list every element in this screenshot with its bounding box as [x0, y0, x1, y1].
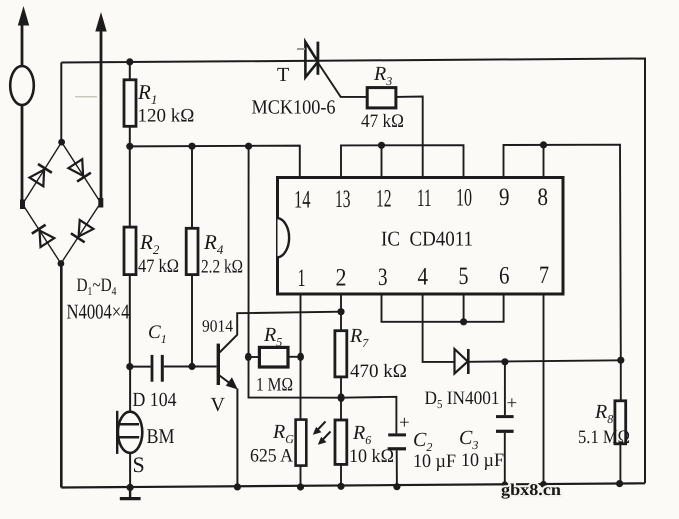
svg-text:7: 7	[539, 262, 549, 289]
svg-text:+: +	[399, 413, 410, 434]
svg-text:D 104: D 104	[133, 389, 177, 411]
svg-text:2.2 kΩ: 2.2 kΩ	[201, 257, 243, 278]
svg-text:D5 IN4001: D5 IN4001	[425, 388, 500, 411]
svg-text:10 kΩ: 10 kΩ	[349, 446, 394, 467]
svg-text:BM: BM	[147, 424, 175, 448]
svg-text:11: 11	[417, 185, 432, 212]
svg-text:1: 1	[298, 265, 306, 292]
svg-text:gbx8.cn: gbx8.cn	[501, 480, 561, 499]
svg-text:V: V	[211, 394, 226, 416]
svg-text:12: 12	[376, 186, 392, 213]
svg-text:N4004×4: N4004×4	[67, 300, 130, 324]
svg-text:IC CD4011: IC CD4011	[381, 227, 473, 251]
svg-text:T: T	[277, 64, 289, 86]
svg-text:120 kΩ: 120 kΩ	[138, 106, 195, 127]
svg-text:D1~D4: D1~D4	[77, 275, 117, 298]
svg-text:5: 5	[459, 263, 469, 290]
svg-text:10 µF: 10 µF	[413, 451, 456, 472]
svg-text:13: 13	[335, 186, 351, 213]
svg-text:10: 10	[456, 185, 472, 212]
svg-text:6: 6	[499, 263, 510, 290]
svg-text:3: 3	[378, 264, 388, 291]
svg-text:+: +	[507, 393, 518, 414]
svg-text:625 A: 625 A	[250, 446, 293, 467]
svg-text:10 µF: 10 µF	[461, 450, 504, 471]
svg-text:8: 8	[538, 184, 549, 211]
svg-text:47 kΩ: 47 kΩ	[361, 111, 404, 132]
svg-text:470 kΩ: 470 kΩ	[350, 361, 407, 382]
svg-text:4: 4	[418, 264, 429, 291]
svg-text:9014: 9014	[202, 317, 233, 336]
svg-text:S: S	[133, 452, 145, 477]
svg-text:1 MΩ: 1 MΩ	[256, 375, 293, 396]
svg-text:2: 2	[336, 265, 347, 292]
svg-text:5.1 MΩ: 5.1 MΩ	[578, 427, 630, 448]
svg-text:MCK100-6: MCK100-6	[252, 97, 336, 119]
svg-text:47 kΩ: 47 kΩ	[138, 256, 179, 277]
svg-text:14: 14	[294, 187, 311, 214]
svg-text:9: 9	[499, 184, 510, 211]
